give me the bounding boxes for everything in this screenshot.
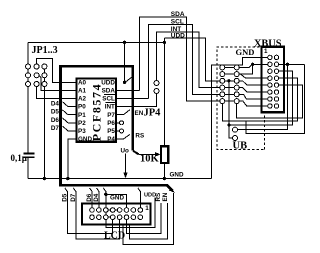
wire P4 RS stub: [117, 134, 130, 139]
svg-text:JP1..3: JP1..3: [32, 45, 58, 56]
svg-text:A0: A0: [78, 79, 87, 86]
wire pad row2 to xbus pin 5: [239, 74, 268, 78]
wire INT pad tie: [225, 87, 234, 89]
wire SDA pin stub: [117, 89, 139, 91]
wire A2 route: [37, 84, 76, 99]
node junction xbus loop A: [286, 63, 289, 66]
wire P7 EN stub: [117, 110, 130, 115]
wire xbus loop E outer: [246, 64, 305, 133]
node junction xbus pin3 branch: [251, 63, 254, 66]
svg-text:UDD: UDD: [101, 79, 115, 86]
wire branch to pad row2: [239, 64, 252, 74]
wire A0 route: [37, 58, 76, 82]
wire SCL: [148, 25, 219, 99]
wire UDD pad down to UB pin 2: [229, 81, 232, 138]
svg-text:P1: P1: [78, 112, 86, 119]
bus thick outline (module boundary / signal bus): [61, 66, 175, 193]
svg-text:D5: D5: [51, 109, 60, 116]
wire col1 VDD: [27, 42, 29, 152]
wire D6 from bus to LCD: [90, 188, 92, 208]
wire INT upper: [157, 32, 220, 88]
connector UB pins: [233, 127, 238, 132]
op IC PCF8574 box: [77, 79, 117, 144]
wire P2/D6 to bus: [63, 118, 77, 123]
svg-text:Uo: Uo: [121, 147, 130, 154]
wire D5 from bus to LCD: [65, 188, 113, 233]
svg-text:RS: RS: [135, 132, 144, 139]
node junctions on rail: [43, 177, 46, 180]
connector JP1..3: [26, 42, 77, 178]
wire loop A down to UB pin 1: [238, 64, 288, 129]
wire gnd inter-row link: [105, 210, 107, 217]
jumper JP4 on INT: [154, 89, 159, 94]
pads right column: [234, 65, 239, 104]
connector XBUS: [262, 47, 285, 113]
wire col3 GND: [43, 67, 45, 179]
wire UDD pad to xbus pin 9: [239, 81, 268, 85]
svg-text:SCL: SCL: [102, 96, 115, 103]
wire xbus loop A to UB pin1: [279, 63, 305, 65]
wire SCL pad to xbus pin 13: [239, 94, 268, 99]
svg-text:P6: P6: [107, 120, 115, 127]
wire pad row2 tie: [225, 73, 234, 75]
svg-text:P3: P3: [78, 128, 86, 135]
wire SCL pad tie: [225, 93, 234, 95]
svg-text:JP4: JP4: [144, 108, 162, 119]
wire UDD loop right into LCD: [106, 198, 155, 228]
svg-text:P2: P2: [78, 120, 86, 127]
wire SDA pad tie: [225, 100, 234, 102]
svg-text:INT: INT: [105, 104, 115, 111]
pins 3x3: [26, 64, 31, 69]
svg-text:LCD: LCD: [104, 231, 125, 242]
resistor 10K potentiometer: [139, 146, 168, 178]
svg-text:SDA: SDA: [102, 88, 116, 95]
wire UDD from bus to LCD: [138, 188, 140, 208]
svg-text:UDD: UDD: [171, 33, 185, 40]
svg-text:1: 1: [145, 205, 149, 212]
svg-text:GND: GND: [78, 136, 92, 143]
wire P3/D7 to bus: [63, 126, 77, 131]
wire D4 from bus to LCD: [97, 188, 99, 208]
wire UDD pad tie: [225, 80, 234, 82]
pads left column: [220, 65, 225, 104]
wire Uo loop into LCD: [123, 193, 174, 245]
svg-text:D7: D7: [70, 193, 77, 202]
svg-text:D6: D6: [51, 117, 60, 124]
wire SDA: [139, 17, 219, 101]
svg-text:GND: GND: [170, 172, 184, 179]
svg-text:GND: GND: [110, 194, 124, 201]
wire A1 route: [39, 76, 76, 91]
wire P0/D4 to bus: [63, 102, 77, 107]
wire pad row1 to xbus pin 3: [239, 64, 268, 67]
svg-text:1: 1: [264, 48, 268, 55]
svg-text:A1: A1: [78, 88, 87, 95]
wire P1/D5 to bus: [63, 110, 77, 115]
wire SCL pin stub: [117, 98, 148, 100]
wire INT pad to xbus pin 11: [239, 88, 268, 93]
svg-text:D4: D4: [51, 100, 60, 107]
wire VDD rail top: [28, 41, 164, 43]
connector LCD: [82, 203, 151, 241]
wire xbus loop D to pad: [237, 85, 303, 118]
wire VDD vertical to IC pin: [124, 42, 126, 82]
svg-text:UB: UB: [233, 140, 248, 151]
Uo annotation arrow: [125, 154, 127, 174]
svg-text:D5: D5: [61, 193, 68, 202]
svg-text:P4: P4: [107, 136, 115, 143]
wire xbus loop B to UB pin2: [229, 71, 293, 125]
svg-text:A2: A2: [78, 96, 87, 103]
node VDD junction at IC: [123, 41, 126, 44]
pin P6 nc circle: [117, 122, 120, 124]
wire GND from bus to LCD: [103, 188, 105, 208]
svg-text:P0: P0: [78, 104, 86, 111]
wire SDA pad to xbus pin 15: [239, 101, 268, 106]
wire UDD to xbus: [164, 38, 219, 81]
wire EN loop into LCD: [130, 203, 168, 239]
wire VDD pin to bus diagonal: [126, 77, 132, 82]
svg-text:EN: EN: [135, 110, 144, 117]
node junction loop B on UB riser: [227, 123, 230, 126]
wire xbus loop C to pad: [222, 78, 297, 121]
svg-text:P7: P7: [107, 112, 115, 119]
wire GND to xbus area: [212, 58, 268, 179]
ground rail: [28, 178, 212, 180]
svg-text:D4: D4: [93, 193, 100, 202]
svg-text:P5: P5: [107, 128, 115, 135]
wire RS loop into LCD: [127, 203, 162, 233]
pin P5 nc circle: [117, 130, 120, 132]
tie bars: [106, 209, 120, 211]
capacitor C 0,1u: [11, 153, 35, 179]
svg-text:D7: D7: [51, 125, 60, 132]
svg-text:GND: GND: [236, 47, 255, 57]
dashed module boundary: [217, 47, 265, 149]
node junction UDD pad branch: [227, 79, 230, 82]
wire pad row1 tie: [225, 66, 234, 68]
wire INT pin stub: [117, 94, 157, 107]
svg-text:EN: EN: [162, 192, 169, 201]
wire IC gnd pin: [68, 139, 76, 179]
wire D7 from bus to LCD: [73, 188, 119, 239]
wire VDD down to potentiometer: [163, 38, 165, 146]
